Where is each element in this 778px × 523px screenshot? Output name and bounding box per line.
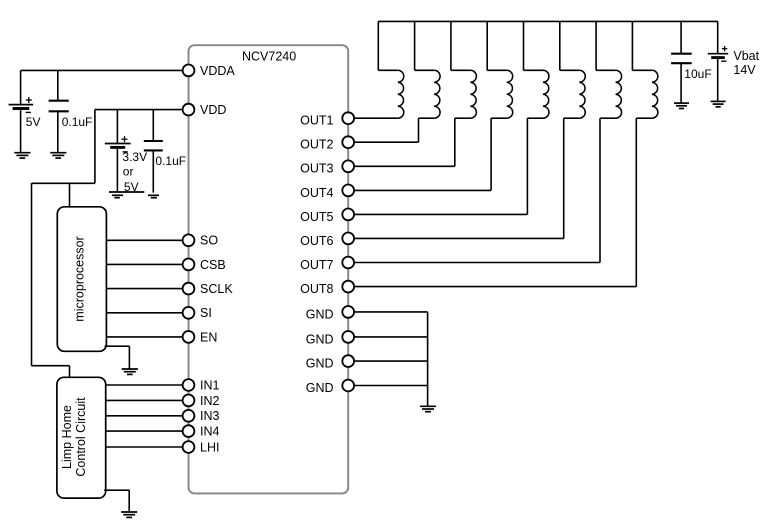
pin OUT5 xyxy=(342,209,354,221)
pin OUT3 xyxy=(342,160,354,172)
pin IN1 xyxy=(183,379,195,391)
svg-text:Control Circuit: Control Circuit xyxy=(74,397,88,477)
wire limp home ground stem xyxy=(128,490,130,512)
wire OUT7 jog vertical xyxy=(599,118,601,262)
wire OUT6 jog vertical xyxy=(563,118,565,238)
battery B1 5V plates xyxy=(9,105,33,109)
battery B2 plus sign xyxy=(122,136,128,142)
limp home control circuit box xyxy=(57,377,106,498)
wire coil L2 bottom jog xyxy=(419,117,435,119)
svg-text:VDDA: VDDA xyxy=(200,64,235,78)
svg-text:14V: 14V xyxy=(733,63,756,77)
wire horizontal to left rail xyxy=(32,182,95,184)
svg-text:GND: GND xyxy=(306,381,334,395)
pin OUT4 xyxy=(342,185,354,197)
wire GND pin 1 horizontal xyxy=(354,311,428,313)
wire SCLK from microprocessor xyxy=(106,288,182,290)
wire IN4 from limp home block xyxy=(106,430,183,432)
pin GND 2 xyxy=(342,331,354,343)
inductor L5 relay coil xyxy=(543,70,549,118)
battery B2 minus sign xyxy=(123,151,128,153)
capacitor C2 0.1uF plates xyxy=(144,141,163,150)
wire coil L7 bottom jog xyxy=(600,117,616,119)
pin SI xyxy=(183,307,195,319)
wire coil L6 bottom jog xyxy=(564,117,580,119)
capacitor C3 stem top wire xyxy=(680,21,682,53)
pin OUT6 xyxy=(342,233,354,245)
wire IN1 from limp home block xyxy=(106,384,183,386)
svg-text:LHI: LHI xyxy=(200,440,219,454)
capacitor C1 stem bottom wire xyxy=(57,111,59,152)
wire SO from microprocessor xyxy=(106,239,182,241)
capacitor C3 10uF plates xyxy=(671,54,692,64)
svg-text:CSB: CSB xyxy=(200,258,226,272)
wire GND pin 2 horizontal xyxy=(354,336,428,338)
svg-text:SO: SO xyxy=(200,234,218,248)
wire IN3 from limp home block xyxy=(106,415,183,417)
wire OUT4 jog vertical xyxy=(490,118,492,190)
inductor L1 relay coil xyxy=(398,70,404,118)
wire left vertical rail xyxy=(31,183,33,365)
ground under battery B1 xyxy=(14,153,30,158)
pin OUT7 xyxy=(342,257,354,269)
wire VDD rail xyxy=(95,109,183,111)
pin LHI xyxy=(183,441,195,453)
wire SI from microprocessor xyxy=(106,312,182,314)
wire coil L2 top jog xyxy=(415,69,435,71)
wire microprocessor ground tap xyxy=(105,345,130,347)
svg-text:OUT2: OUT2 xyxy=(300,138,333,152)
svg-text:OUT7: OUT7 xyxy=(300,258,333,272)
svg-text:Limp Home: Limp Home xyxy=(60,405,74,469)
pin GND 3 xyxy=(342,355,354,367)
wire coil L6 stub from rail xyxy=(559,21,561,70)
capacitor C1 0.1uF plates xyxy=(49,101,69,112)
svg-text:OUT4: OUT4 xyxy=(300,186,333,200)
inductor L2 relay coil xyxy=(434,70,440,118)
svg-text:IN4: IN4 xyxy=(200,425,220,439)
inductor L8 relay coil xyxy=(652,70,658,118)
wire OUT3 jog vertical xyxy=(454,118,456,166)
inductor L3 relay coil xyxy=(470,70,476,118)
svg-text:OUT6: OUT6 xyxy=(300,234,333,248)
wire coil L5 stub from rail xyxy=(523,21,525,70)
wire coil L1 stub from rail xyxy=(377,21,379,70)
wire into limp-home box top xyxy=(69,366,71,378)
wire IN2 from limp home block xyxy=(106,399,183,401)
capacitor C2 stem top wire xyxy=(152,110,154,141)
svg-text:GND: GND xyxy=(306,357,334,371)
pin EN xyxy=(183,331,195,343)
wire coil L4 top jog xyxy=(487,69,507,71)
svg-text:OUT3: OUT3 xyxy=(300,162,333,176)
pin SO xyxy=(183,234,195,246)
battery B3 Vbat stem top wire xyxy=(717,21,719,53)
wire CSB from microprocessor xyxy=(106,263,182,265)
wire limp home ground tap xyxy=(104,489,129,491)
wire coil L4 stub from rail xyxy=(486,21,488,70)
battery B3 minus sign xyxy=(721,60,726,62)
svg-text:0.1uF: 0.1uF xyxy=(155,154,186,168)
battery B3 stem bottom wire xyxy=(717,58,719,102)
wire coil L2 stub from rail xyxy=(414,21,416,70)
svg-text:IN3: IN3 xyxy=(200,409,220,423)
microprocessor block box xyxy=(57,207,106,351)
wire coil L8 bottom jog xyxy=(636,117,652,119)
wire coil L3 top jog xyxy=(451,69,471,71)
svg-text:Vbat: Vbat xyxy=(733,49,759,63)
pin IN3 xyxy=(183,410,195,422)
svg-text:or: or xyxy=(123,165,134,179)
wire OUT5 horizontal xyxy=(354,213,527,215)
wire OUT8 jog vertical xyxy=(635,118,637,286)
wire coil L8 top jog xyxy=(632,69,652,71)
pin VDD xyxy=(183,104,195,116)
wire coil L8 stub from rail xyxy=(631,21,633,70)
svg-text:SI: SI xyxy=(200,306,212,320)
battery B2 stem bottom wire xyxy=(116,147,118,192)
ground under capacitor C1 xyxy=(50,153,66,158)
svg-text:OUT8: OUT8 xyxy=(300,282,333,296)
ground under battery B2 wide xyxy=(109,192,144,198)
inductor L7 relay coil xyxy=(616,70,622,118)
capacitor C1 stem top wire xyxy=(57,70,59,100)
wire OUT8 horizontal xyxy=(354,286,636,288)
pin VDDA xyxy=(183,65,195,77)
wire VDD branch down xyxy=(94,110,96,184)
svg-text:10uF: 10uF xyxy=(684,67,711,81)
svg-text:OUT5: OUT5 xyxy=(300,210,333,224)
battery B2 stem top wire xyxy=(116,110,118,144)
svg-text:3.3V: 3.3V xyxy=(122,150,147,164)
svg-text:GND: GND xyxy=(306,332,334,346)
wire coil L3 bottom jog xyxy=(455,117,471,119)
wire coil L7 top jog xyxy=(596,69,616,71)
pin IN2 xyxy=(183,395,195,407)
wire LHI from limp home block xyxy=(106,446,183,448)
battery B1 5V stem top xyxy=(20,70,22,104)
op IC body U1 NCV7240 xyxy=(189,45,349,493)
wire into microprocessor box top xyxy=(69,183,71,206)
svg-text:OUT1: OUT1 xyxy=(300,114,333,128)
svg-text:NCV7240: NCV7240 xyxy=(242,50,296,64)
svg-text:VDD: VDD xyxy=(200,103,226,117)
wire VDDA rail xyxy=(21,69,183,71)
ground under battery B3 xyxy=(711,101,726,106)
ground under capacitor C3 xyxy=(674,103,689,108)
pin CSB xyxy=(183,259,195,271)
wire OUT2 horizontal xyxy=(354,141,418,143)
wire coil L3 stub from rail xyxy=(450,21,452,70)
pin SCLK xyxy=(183,283,195,295)
wire OUT6 horizontal xyxy=(354,237,564,239)
battery B1 plus sign xyxy=(26,97,32,103)
battery B1 stem bottom wire xyxy=(20,109,22,153)
pin IN4 xyxy=(183,425,195,437)
wire OUT3 horizontal xyxy=(354,165,455,167)
svg-text:SCLK: SCLK xyxy=(200,282,233,296)
capacitor C3 stem bottom wire xyxy=(680,63,682,103)
svg-text:GND: GND xyxy=(306,307,334,321)
ground under capacitor C2 xyxy=(148,195,159,197)
wire coil L5 top jog xyxy=(524,69,544,71)
battery B1 minus sign xyxy=(26,111,31,113)
wire GND pin 4 horizontal xyxy=(354,385,428,387)
wire OUT2 jog vertical xyxy=(418,118,420,142)
wire OUT1 to coil L1 xyxy=(354,117,398,119)
wire coil L5 bottom jog xyxy=(527,117,543,119)
svg-text:EN: EN xyxy=(200,330,217,344)
pin OUT8 xyxy=(342,281,354,293)
battery B2 3.3V plates xyxy=(105,144,131,148)
wire coil L7 stub from rail xyxy=(595,21,597,70)
wire coil L4 bottom jog xyxy=(491,117,507,119)
battery B3 Vbat plates xyxy=(708,54,728,58)
capacitor C2 stem bottom wire xyxy=(152,150,154,192)
inductor L6 relay coil xyxy=(579,70,585,118)
wire OUT5 jog vertical xyxy=(526,118,528,214)
pin GND 4 xyxy=(342,380,354,392)
wire GND bus vertical xyxy=(427,312,429,406)
wire OUT7 horizontal xyxy=(354,262,600,264)
wire coil L1 top jog xyxy=(378,69,398,71)
svg-text:IN2: IN2 xyxy=(200,394,220,408)
pin OUT2 xyxy=(342,136,354,148)
ground for GND pins xyxy=(420,406,436,411)
ground under microprocessor xyxy=(122,369,138,374)
wire EN from microprocessor xyxy=(106,336,182,338)
svg-text:0.1uF: 0.1uF xyxy=(62,115,93,129)
wire microprocessor ground stem xyxy=(128,346,130,369)
wire jog to limp-home xyxy=(32,365,70,367)
inductor L4 relay coil xyxy=(507,70,513,118)
wire GND pin 3 horizontal xyxy=(354,360,428,362)
battery B3 plus sign xyxy=(722,46,727,51)
wire Vbat top rail xyxy=(378,20,717,22)
wire coil L6 top jog xyxy=(560,69,580,71)
svg-text:5V: 5V xyxy=(26,115,41,129)
pin GND 1 xyxy=(342,306,354,318)
pin OUT1 xyxy=(342,112,354,124)
ground under limp home block xyxy=(121,512,137,517)
svg-text:microprocessor: microprocessor xyxy=(72,236,86,321)
svg-text:IN1: IN1 xyxy=(200,378,220,392)
wire OUT4 horizontal xyxy=(354,189,491,191)
